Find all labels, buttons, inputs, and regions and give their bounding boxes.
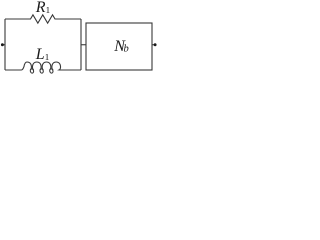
svg-text:R1: R1 [35,0,50,16]
node: left port terminal dot [1,43,4,46]
svg-text:Nb: Nb [113,38,129,55]
wire: stub from loop to network box [81,44,86,46]
two-port network box Nb [86,23,152,70]
inductor L1 bottom loop 2 [40,69,44,74]
wire: left vertical of parallel loop [4,19,6,70]
inductor L1 bottom loop 1 [30,69,34,74]
svg-text:L1: L1 [35,46,49,63]
inductor L1 bottom loop 3 [49,69,53,74]
inductor L1 hump 2 [32,62,41,70]
wire: left port stub [2,44,5,46]
wire: right vertical of parallel loop [80,19,82,70]
node: right port terminal dot [154,43,157,46]
resistor R1 (top branch with zigzag) [5,15,81,23]
inductor L1 (bottom branch coil, hump 1 with lead-in wire) [5,62,31,70]
inductor L1 hump 3 [42,62,51,70]
inductor L1 hump 4 with lead-out wire [52,62,81,70]
wire: right port stub [152,44,155,46]
